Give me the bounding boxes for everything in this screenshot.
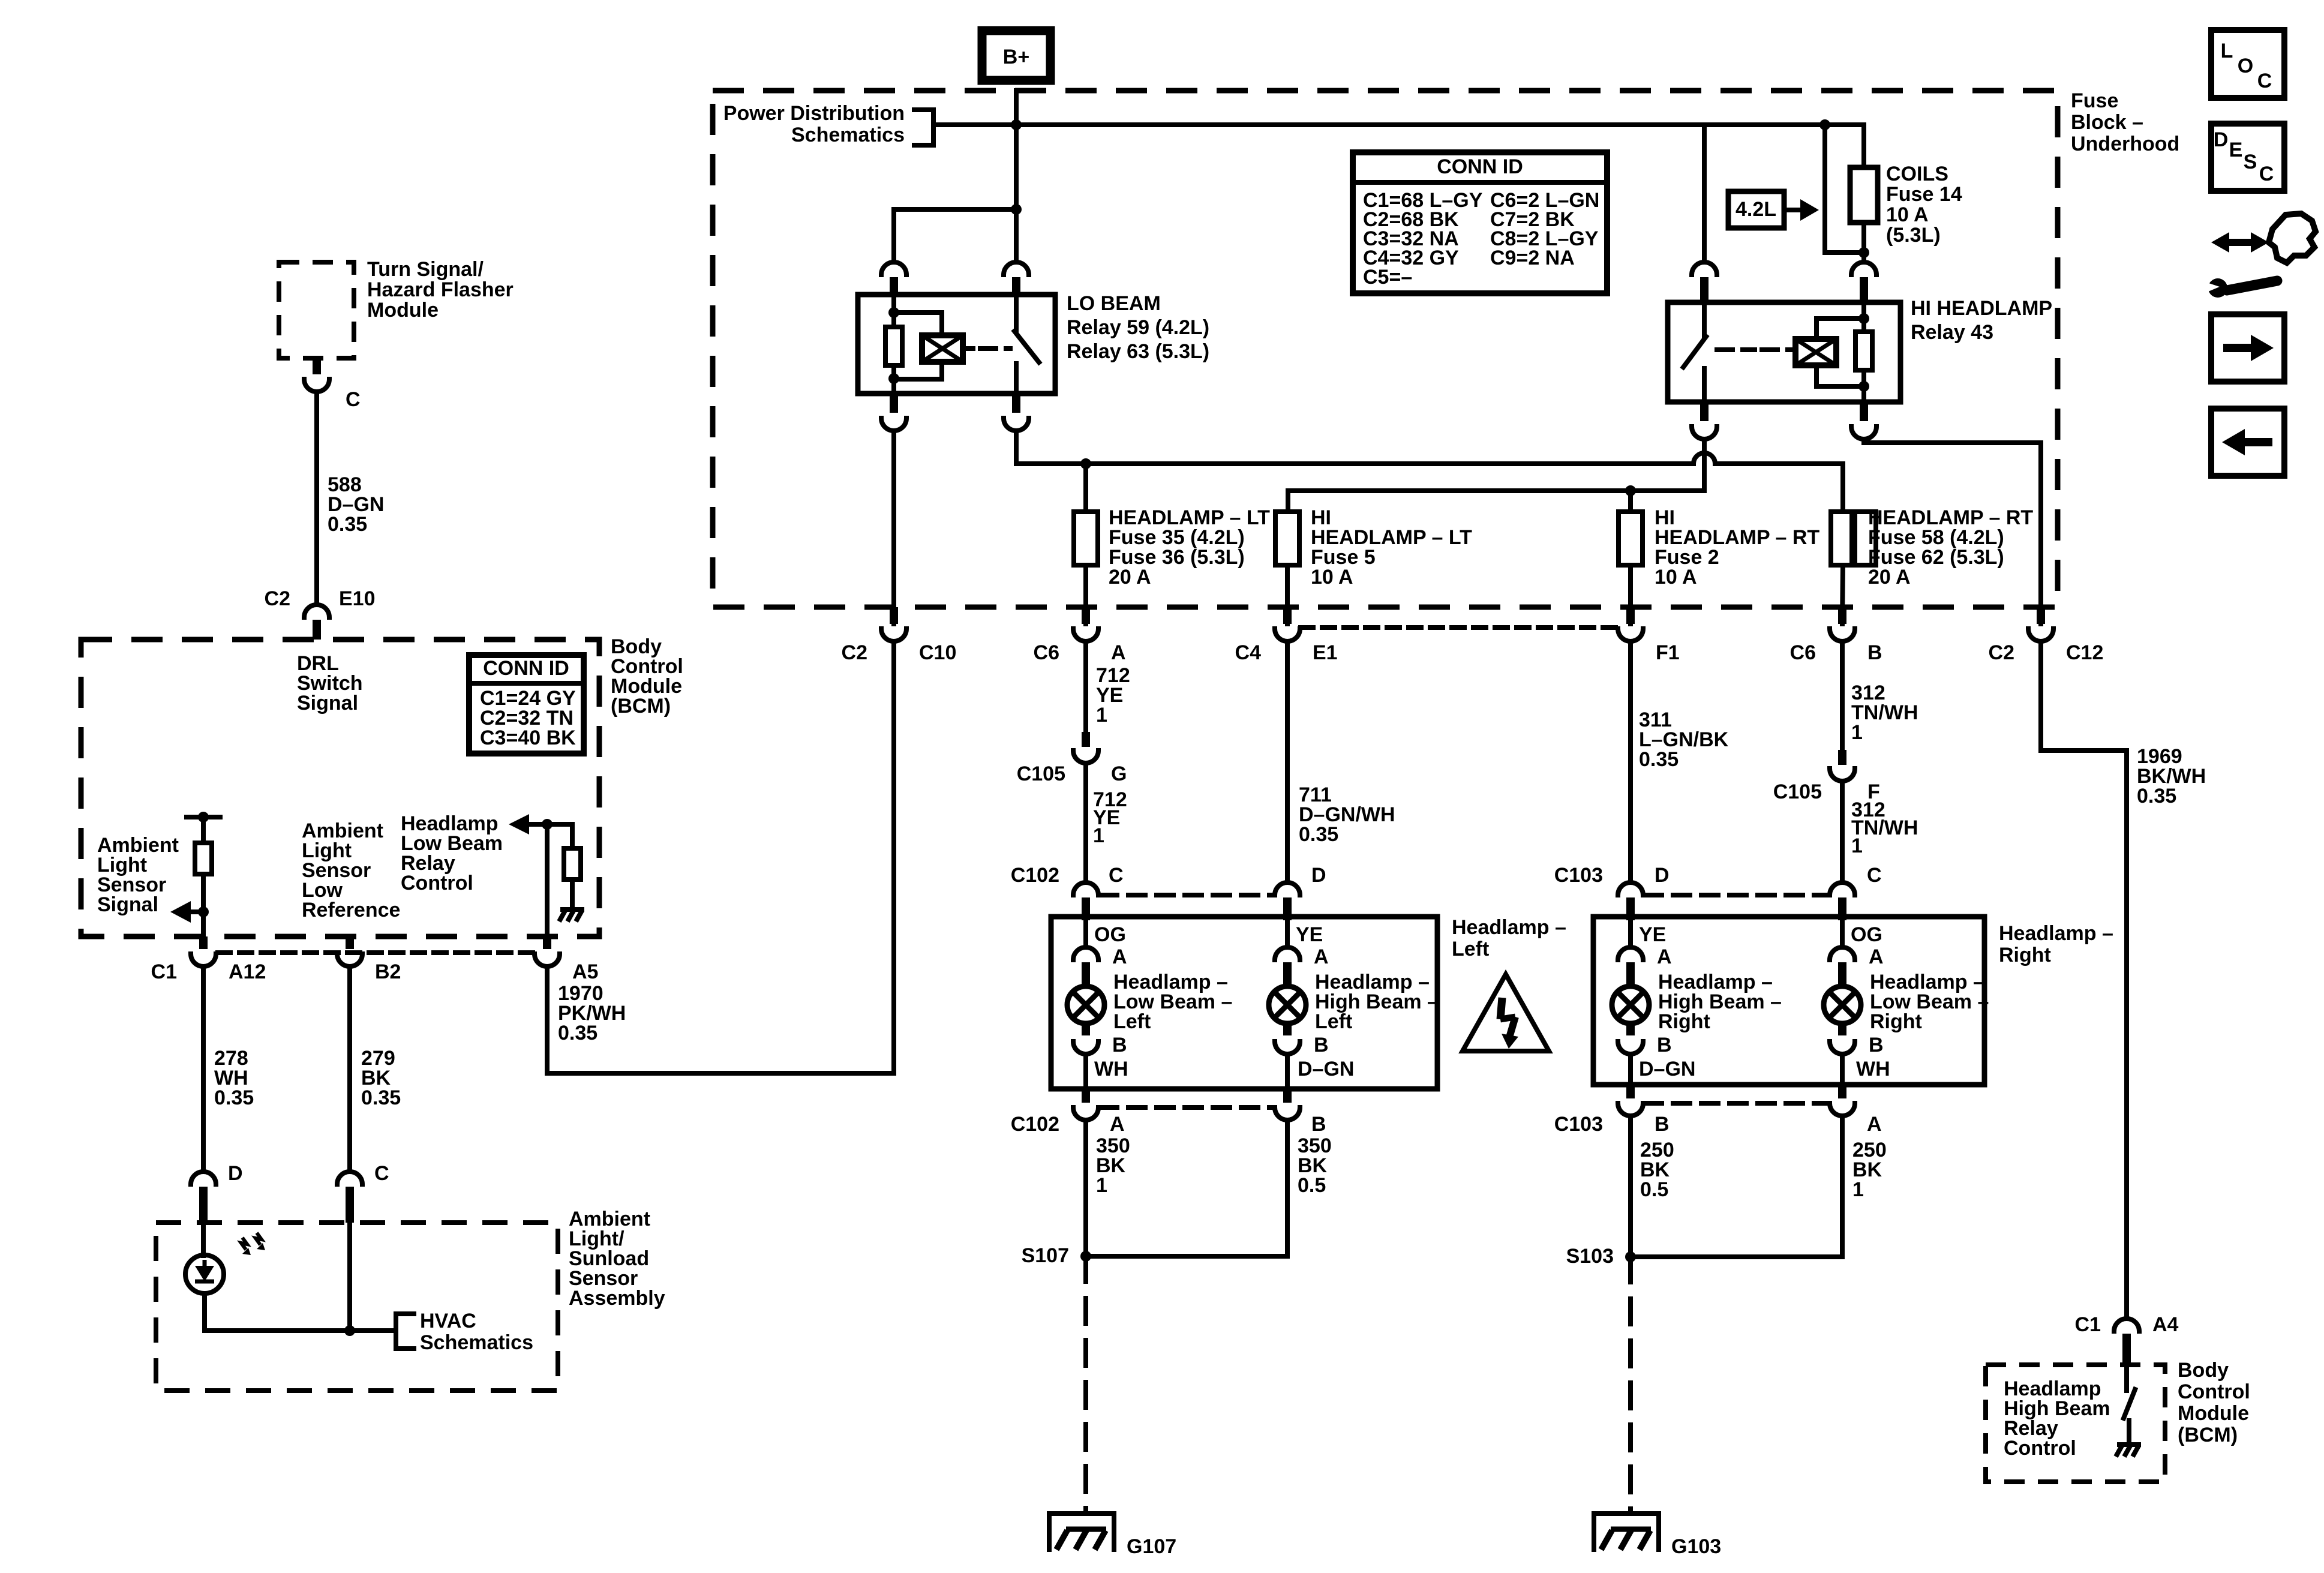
svg-text:C102: C102: [1011, 864, 1059, 887]
wire HI output to Fuse 5: [1288, 491, 1704, 512]
icon wrench and shop cloth: [2211, 232, 2269, 253]
svg-text:HVAC: HVAC: [420, 1310, 476, 1332]
wire lamp return 2146: [1285, 1054, 1290, 1089]
wire 312 TN/WH seg1: [1840, 641, 1845, 750]
wire lamp feed 1810: [1083, 920, 1088, 947]
arrow ambient light sensor signal: [191, 909, 203, 914]
wire fuse35 out: [1083, 565, 1088, 624]
connector C103 C: [1830, 882, 1855, 895]
wire resistor to ground: [570, 879, 575, 907]
connector F1 hi-RT feed: [1618, 629, 1643, 641]
photodiode ambient light sensor: [185, 1255, 224, 1293]
wire 311 L-GN/BK: [1628, 641, 1633, 881]
svg-text:Power Distribution: Power Distribution: [723, 102, 905, 125]
pin C102 A stub: [1082, 1089, 1090, 1103]
pin turn signal C stub: [313, 358, 321, 374]
ground G103: [1594, 1514, 1659, 1550]
dashed connector line C102 row: [1100, 893, 1273, 897]
svg-text:E1: E1: [1313, 641, 1338, 664]
svg-text:Schematics: Schematics: [791, 124, 905, 146]
connector C105 G: [1073, 751, 1098, 763]
pin C4/E1 hi-LT feed stub: [1283, 607, 1292, 624]
svg-text:0.35: 0.35: [361, 1086, 401, 1109]
svg-text:C105: C105: [1017, 763, 1065, 785]
svg-text:C: C: [1867, 864, 1882, 887]
arrow from 4.2L tag: [1784, 208, 1800, 212]
junction relay control: [542, 819, 553, 830]
fuse HEADLAMP-RT Fuse 58/62 20A: [1831, 512, 1855, 565]
connector sensor D: [191, 1172, 216, 1184]
wire LO relay coil bottom link: [894, 362, 942, 379]
svg-text:Fuse: Fuse: [2071, 89, 2118, 112]
svg-text:Hazard Flasher: Hazard Flasher: [367, 278, 514, 301]
icon back arrow box: [2211, 409, 2284, 476]
connector C105 F: [1830, 769, 1855, 781]
svg-text:Control: Control: [2004, 1437, 2076, 1460]
wire HI relay switch output contact: [1702, 368, 1707, 402]
wire LO relay actuator dashed link: [980, 346, 1010, 351]
svg-text:Turn Signal/: Turn Signal/: [367, 258, 484, 281]
connector lamp pin B right x3071: [1830, 1041, 1855, 1054]
lamp bulb right x2718: [1612, 986, 1649, 1023]
wire sensor low ref internal: [347, 1223, 352, 1331]
wire LO relay switch fixed contact: [1014, 295, 1019, 331]
wire 250 BK 0.5: [1628, 1116, 1633, 1257]
wire HI relay coil bottom link: [1816, 365, 1864, 386]
svg-text:D: D: [1311, 864, 1326, 887]
junction fuse 35/36 feed: [1080, 458, 1091, 469]
wire HI relay switch feed: [1702, 125, 1707, 262]
connector LO relay pin 87 (output): [1004, 418, 1029, 431]
fuse COILS Fuse 14 10A: [1852, 512, 1876, 565]
svg-text:C: C: [2257, 70, 2272, 92]
table CONN ID BCM: [469, 655, 584, 754]
switch LO relay blade: [1014, 331, 1039, 362]
resistor relay control pull-down: [564, 848, 581, 879]
wire HI relay coil return to C12: [1864, 439, 2041, 624]
connector HI relay pin 30: [1692, 262, 1717, 275]
ground BCM internal: [560, 907, 584, 912]
wire 312 TN/WH seg2: [1840, 781, 1845, 881]
splice S107: [1080, 1251, 1091, 1262]
pin C102 B stub: [1283, 1089, 1292, 1103]
connector C103 A: [1830, 1103, 1855, 1116]
coil HI relay winding: [1795, 339, 1836, 365]
wire LO relay coil top link: [894, 313, 942, 335]
wire 350 BK 0.5: [1086, 1120, 1287, 1256]
svg-text:Headlamp –: Headlamp –: [1999, 922, 2113, 945]
connector lamp pin A x2146: [1275, 947, 1300, 960]
relay LO BEAM Relay 59/63 box: [858, 295, 1055, 394]
svg-text:COILS: COILS: [1886, 163, 1948, 185]
warning triangle high voltage: [1463, 974, 1549, 1051]
wire HI relay internal resistor bottom: [1861, 370, 1866, 402]
svg-text:A: A: [1657, 945, 1672, 968]
wire HI relay switch fixed contact: [1702, 302, 1707, 336]
svg-text:C105: C105: [1773, 781, 1822, 803]
wire HI relay internal resistor top: [1861, 302, 1866, 332]
svg-text:Signal: Signal: [97, 893, 158, 916]
junction LO relay coil top: [888, 307, 899, 318]
connector C103 B: [1618, 1103, 1643, 1116]
module Body Control Module dashed box: [81, 640, 599, 936]
connector C102 D: [1275, 882, 1300, 895]
switch HI relay blade: [1683, 337, 1706, 367]
svg-text:C: C: [1109, 864, 1124, 887]
svg-text:O: O: [2238, 55, 2253, 77]
pin HI relay 87 stub: [1700, 402, 1709, 421]
connector C6/A headlamp-LT feed: [1073, 629, 1098, 641]
module BCM (high beam relay control) dashed box: [1986, 1365, 2165, 1482]
svg-text:S: S: [2244, 151, 2257, 173]
svg-text:20 A: 20 A: [1109, 566, 1151, 589]
wire C10 to BCM A5 vertical: [891, 641, 896, 1073]
pin F1 hi-RT feed stub: [1626, 607, 1635, 624]
pin C105 G stub: [1082, 732, 1090, 747]
svg-text:A5: A5: [572, 960, 598, 983]
connector C102 A: [1073, 1107, 1098, 1120]
pin LO relay 85 stub: [890, 394, 898, 413]
svg-text:A: A: [1112, 945, 1127, 968]
table CONN ID fuse block: [1353, 152, 1607, 293]
svg-text:A: A: [1110, 1113, 1125, 1136]
svg-text:0.5: 0.5: [1298, 1174, 1326, 1197]
connector lamp pin A x1810: [1073, 947, 1098, 960]
svg-text:Right: Right: [1999, 944, 2051, 966]
svg-text:Right: Right: [1658, 1010, 1710, 1033]
pin BCM A12 stub: [199, 936, 208, 949]
svg-text:E: E: [2229, 139, 2243, 161]
svg-text:C: C: [346, 388, 361, 411]
wire lamp feed right 2718: [1628, 920, 1633, 947]
connector LO relay pin 85 (coil return): [881, 418, 906, 431]
svg-text:1: 1: [1851, 834, 1863, 857]
svg-text:A4: A4: [2152, 1313, 2179, 1336]
svg-text:C6: C6: [1034, 641, 1059, 664]
connector lamp pin B right x2718: [1618, 1041, 1643, 1054]
svg-text:C12: C12: [2066, 641, 2103, 664]
svg-text:Relay 63 (5.3L): Relay 63 (5.3L): [1067, 340, 1209, 363]
connector lamp pin A right x2718: [1618, 947, 1643, 960]
connector HI relay pin 86: [1851, 262, 1876, 275]
svg-text:Block –: Block –: [2071, 111, 2143, 134]
svg-text:Relay 43: Relay 43: [1911, 321, 1993, 344]
svg-text:G: G: [1111, 763, 1127, 785]
connector C102 C: [1073, 882, 1098, 895]
svg-text:A: A: [1314, 945, 1329, 968]
coil LO relay winding: [922, 335, 963, 362]
svg-text:0.35: 0.35: [328, 513, 367, 536]
switch BCM high beam driver: [2124, 1389, 2135, 1418]
svg-text:CONN ID: CONN ID: [483, 657, 569, 680]
svg-text:1: 1: [1852, 1178, 1864, 1201]
svg-text:YE: YE: [1639, 923, 1666, 946]
junction bus / coils bypass: [1819, 119, 1830, 130]
connector HI relay pin 85 (coil return): [1851, 427, 1876, 439]
pin C6/A headlamp-LT feed stub: [1082, 607, 1090, 624]
dashed connector line C103 bottom row: [1645, 1101, 1828, 1106]
svg-text:0.35: 0.35: [1639, 748, 1679, 771]
junction LO relay coil bottom: [888, 373, 899, 384]
splice S103: [1625, 1251, 1636, 1262]
wire LO relay internal coil-left top: [891, 295, 896, 327]
wire relay control internal: [529, 824, 572, 848]
wire 278 WH: [201, 966, 206, 1172]
wire jog to LO relay coil pin: [894, 209, 1016, 262]
pin C103 B stub: [1626, 1085, 1635, 1098]
wire 279 BK: [347, 966, 352, 1172]
wire S107 to G107 dashed: [1083, 1256, 1088, 1513]
svg-text:(BCM): (BCM): [2178, 1424, 2238, 1446]
wire HI relay output down: [1702, 439, 1707, 491]
svg-text:Fuse 14: Fuse 14: [1886, 183, 1962, 206]
pin BCM B2 stub: [346, 936, 354, 949]
wire 712 YE seg2: [1083, 763, 1088, 881]
svg-text:B: B: [1112, 1034, 1127, 1056]
connector lamp pin B x2146: [1275, 1041, 1300, 1054]
relay HI HEADLAMP Relay 43 box: [1668, 302, 1900, 402]
engine variant tag 4.2L box: [1728, 191, 1784, 228]
wire LO relay internal coil-left bottom: [891, 365, 896, 394]
battery feed B+ box: [982, 31, 1050, 80]
svg-text:0.35: 0.35: [1299, 823, 1338, 846]
svg-text:B: B: [1655, 1113, 1670, 1136]
wire HI relay coil actuator stub2: [1762, 347, 1795, 352]
connector C2/C10 LO relay coil control: [881, 629, 906, 641]
svg-text:Relay 59 (4.2L): Relay 59 (4.2L): [1067, 316, 1209, 339]
node ambient light sensor signal rail: [187, 815, 220, 819]
connector C1 A4: [2114, 1319, 2139, 1331]
lamp bulb x1810: [1067, 986, 1104, 1023]
resistor HI relay coil suppression: [1855, 332, 1872, 370]
icon forward arrow box: [2211, 314, 2284, 382]
svg-text:Left: Left: [1315, 1010, 1352, 1033]
wire fuse58 out: [1842, 565, 1843, 624]
svg-text:C2: C2: [842, 641, 867, 664]
fuse HEADLAMP-LT Fuse 35/36 20A: [1074, 512, 1098, 565]
svg-text:G107: G107: [1127, 1535, 1176, 1558]
svg-text:D: D: [2214, 128, 2229, 151]
wire switch to ground: [2127, 1421, 2131, 1442]
svg-text:(BCM): (BCM): [611, 695, 671, 718]
dashed connector line C102 bottom row: [1100, 1105, 1273, 1110]
svg-text:WH: WH: [1856, 1058, 1890, 1080]
fuse HI HEADLAMP-RT Fuse 2 10A: [1619, 512, 1643, 565]
pin BCM A5 stub: [543, 936, 551, 949]
fuse HI HEADLAMP-LT Fuse 5 10A: [1275, 512, 1299, 565]
wire into photodiode: [201, 1223, 206, 1256]
connector BCM B2: [337, 954, 362, 966]
pin LO relay 87 stub: [1012, 394, 1020, 413]
svg-text:1: 1: [1093, 824, 1104, 847]
dotted connector line BCM bottom row: [218, 950, 533, 955]
svg-text:WH: WH: [1094, 1058, 1128, 1080]
wire HI relay actuator dashed link: [1717, 347, 1755, 352]
svg-text:10 A: 10 A: [1655, 566, 1697, 589]
svg-text:L: L: [2221, 40, 2233, 62]
pin C105 F stub: [1838, 750, 1846, 765]
pin C2/C12 high beam relay control stub: [2037, 607, 2045, 624]
svg-text:B+: B+: [1003, 46, 1029, 68]
icon LOC box: [2211, 30, 2284, 98]
svg-text:C3=40 BK: C3=40 BK: [480, 727, 576, 749]
svg-text:C102: C102: [1011, 1113, 1059, 1136]
connector LO relay pin 30 (switch feed): [1004, 262, 1029, 275]
resistor ambient light pull-up: [195, 843, 212, 874]
fuse block underhood dashed box: [713, 91, 2058, 607]
svg-text:CONN ID: CONN ID: [1437, 155, 1523, 178]
wire 1970 PK/WH to LO relay coil: [547, 966, 894, 1073]
dotted connector line E1 to F1: [1301, 625, 1617, 630]
junction signal takeoff: [198, 906, 209, 917]
lamp bulb x2146: [1269, 986, 1306, 1023]
junction sensor common: [344, 1325, 355, 1336]
wire 588 D-GN: [314, 392, 319, 604]
svg-text:S103: S103: [1566, 1245, 1614, 1268]
svg-text:LO BEAM: LO BEAM: [1067, 292, 1161, 315]
svg-text:C: C: [2259, 163, 2274, 185]
wire LO relay output bus to fuses (y=773) with hop over HI switch wire: [1016, 431, 1843, 512]
junction HI relay coil top: [1858, 313, 1869, 324]
svg-text:C103: C103: [1554, 864, 1603, 887]
svg-text:C1: C1: [2075, 1313, 2101, 1336]
svg-text:B: B: [1311, 1113, 1326, 1136]
wire down to Fuse 2: [1628, 491, 1633, 512]
wire COILS fuse output: [1861, 223, 1866, 262]
wire 711 D-GN/WH: [1285, 641, 1290, 881]
svg-text:Schematics: Schematics: [420, 1331, 533, 1354]
wire resistor to A12: [201, 874, 206, 936]
svg-text:Right: Right: [1870, 1010, 1922, 1033]
pin C103 A stub: [1838, 1085, 1846, 1098]
wire S103 to G103 dashed: [1628, 1257, 1633, 1513]
svg-text:YE: YE: [1296, 923, 1323, 946]
connector BCM A5: [535, 954, 560, 966]
svg-text:A: A: [1869, 945, 1884, 968]
svg-text:G103: G103: [1671, 1535, 1721, 1558]
svg-text:A: A: [1111, 641, 1126, 664]
bracket to Power Distribution Schematics: [914, 110, 947, 145]
svg-text:1: 1: [1096, 704, 1107, 727]
svg-text:B: B: [1314, 1034, 1329, 1056]
svg-text:C1: C1: [151, 960, 177, 983]
svg-text:D: D: [228, 1162, 243, 1185]
connector HI relay pin 87 (output): [1692, 427, 1717, 439]
wire lamp return right 3071: [1840, 1054, 1845, 1085]
svg-text:Underhood: Underhood: [2071, 133, 2179, 155]
svg-text:A: A: [1867, 1113, 1882, 1136]
svg-text:20 A: 20 A: [1868, 566, 1911, 589]
svg-text:Signal: Signal: [297, 692, 358, 715]
connector C103 D: [1618, 882, 1643, 895]
svg-text:C: C: [374, 1162, 389, 1185]
module Turn Signal/Hazard Flasher dashed box: [279, 262, 354, 358]
svg-text:C6: C6: [1790, 641, 1816, 664]
svg-text:0.35: 0.35: [214, 1086, 254, 1109]
junction B+ bus: [1011, 119, 1022, 130]
lamp bulb right x3071: [1824, 986, 1861, 1023]
svg-text:Assembly: Assembly: [569, 1287, 665, 1310]
connector C2 E10: [304, 605, 329, 617]
svg-text:C2: C2: [265, 587, 290, 610]
bracket to HVAC Schematics: [396, 1314, 414, 1349]
resistor LO relay coil suppression: [885, 327, 902, 365]
wire 250 BK 1: [1631, 1116, 1842, 1257]
junction sensor rail: [198, 812, 209, 822]
svg-text:B: B: [1869, 1034, 1884, 1056]
wire 350 BK 1: [1083, 1120, 1088, 1256]
wire fuse5 out: [1285, 565, 1290, 624]
pin lamp B stub right x3071: [1838, 1025, 1846, 1035]
wire HI relay coil top link: [1816, 319, 1864, 339]
svg-text:Module: Module: [367, 299, 439, 322]
svg-text:Control: Control: [401, 872, 473, 894]
connector turn signal C: [304, 379, 329, 392]
svg-text:HI HEADLAMP: HI HEADLAMP: [1911, 297, 2052, 320]
svg-text:Body: Body: [2178, 1359, 2229, 1382]
svg-text:C5=–: C5=–: [1363, 266, 1412, 289]
connector lamp pin A right x3071: [1830, 947, 1855, 960]
junction HI relay coil bottom: [1858, 381, 1869, 392]
module Ambient Light/Sunload Sensor Assembly dashed box: [156, 1223, 558, 1391]
connector sensor C: [337, 1172, 362, 1184]
svg-text:C10: C10: [919, 641, 956, 664]
wire 712 YE seg1: [1083, 641, 1088, 732]
wire LO relay switch output contact: [1014, 364, 1019, 394]
pin lamp B stub right x2718: [1626, 1025, 1635, 1035]
svg-text:1: 1: [1851, 721, 1863, 744]
svg-text:B: B: [1867, 641, 1882, 664]
icon DESC box: [2211, 124, 2284, 191]
wire LO relay coil actuator stub: [963, 346, 973, 351]
connector LO relay pin 86 (coil feed): [881, 262, 906, 275]
svg-text:0.35: 0.35: [2137, 785, 2176, 807]
connector C6/B headlamp-RT feed: [1830, 629, 1855, 641]
svg-text:Left: Left: [1113, 1010, 1151, 1033]
svg-text:A12: A12: [229, 960, 266, 983]
wire B+ bus to COILS fuse: [947, 125, 1864, 167]
svg-text:OG: OG: [1851, 923, 1882, 946]
svg-text:Control: Control: [2178, 1380, 2250, 1403]
junction LO relay feed: [1011, 204, 1022, 215]
svg-text:10 A: 10 A: [1886, 203, 1929, 226]
pin C2/C10 LO relay coil control stub: [890, 607, 898, 624]
wire relay control to A5: [545, 824, 550, 936]
svg-text:D–GN: D–GN: [1298, 1058, 1354, 1080]
svg-text:B: B: [1657, 1034, 1672, 1056]
svg-text:C2: C2: [1989, 641, 2014, 664]
ground BCM right internal: [2117, 1442, 2141, 1447]
svg-text:0.35: 0.35: [558, 1022, 597, 1044]
wire lamp feed right 3071: [1840, 920, 1845, 947]
wire LO relay coil return down to C10: [891, 431, 896, 624]
svg-text:S107: S107: [1022, 1244, 1069, 1267]
connector C4/E1 hi-LT feed: [1275, 629, 1300, 641]
svg-text:D: D: [1655, 864, 1670, 887]
connector lamp pin B x1810: [1073, 1041, 1098, 1054]
headlamp-left assembly box: [1051, 917, 1437, 1089]
connector BCM A12: [191, 954, 216, 966]
arrow headlamp low beam relay control: [509, 814, 529, 834]
wire fuse2 out: [1628, 565, 1633, 624]
ground G107: [1049, 1514, 1114, 1550]
svg-text:Left: Left: [1452, 938, 1489, 960]
svg-text:0.5: 0.5: [1640, 1178, 1668, 1201]
wire lamp return right 2718: [1628, 1054, 1633, 1085]
wire lamp feed 2146: [1285, 920, 1290, 947]
svg-text:OG: OG: [1094, 923, 1126, 946]
svg-text:Reference: Reference: [302, 899, 400, 921]
